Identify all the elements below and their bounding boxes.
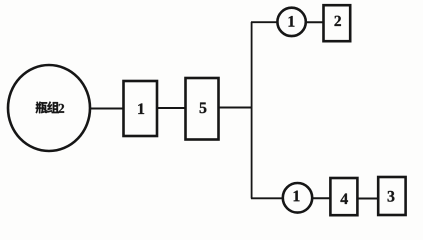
digit 1 in top circle: [289, 16, 295, 27]
digit 2 in box 2: [334, 16, 340, 26]
label char 组: [47, 101, 59, 113]
vertical trunk wire: [251, 22, 253, 199]
label char 瓶: [36, 102, 48, 114]
box 3: [378, 177, 405, 215]
top circle (device 1): [277, 8, 305, 36]
box 4: [330, 178, 357, 215]
wire top circle to box 2: [306, 21, 324, 23]
wire box 1 to box 5: [157, 107, 186, 109]
wire circle to box 1: [90, 108, 125, 110]
digit 1 in bottom circle: [294, 191, 300, 202]
digit 4 in box 4: [340, 193, 347, 204]
wire box 5 to trunk: [219, 107, 253, 109]
cylinder group circle (瓶组2): [8, 65, 90, 151]
label digit 2 of 瓶组2: [58, 104, 64, 113]
digit 5 in box 5: [200, 103, 207, 114]
bottom branch wire: [251, 197, 284, 199]
wire bottom circle to box 4: [312, 197, 330, 199]
box 1 (container valve): [124, 81, 158, 136]
digit 1 in box 1: [138, 103, 144, 114]
box 2: [324, 5, 351, 41]
wire box 4 to box 3: [357, 198, 378, 200]
top branch wire: [251, 21, 278, 23]
box 5 (manifold): [186, 78, 219, 140]
digit 3 in box 3: [388, 191, 395, 202]
bottom circle (device 1): [283, 183, 312, 213]
